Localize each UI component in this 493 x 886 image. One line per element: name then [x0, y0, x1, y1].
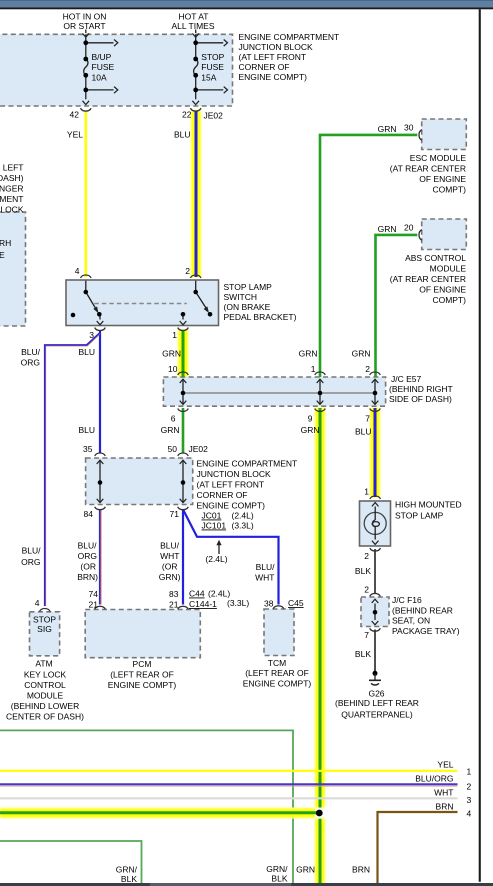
- svg-text:(AT REAR CENTER: (AT REAR CENTER: [390, 164, 466, 174]
- svg-text:(2.4L): (2.4L): [232, 511, 254, 521]
- svg-text:(OR: (OR: [80, 562, 96, 572]
- svg-text:ORG: ORG: [21, 557, 40, 567]
- svg-text:GRN/: GRN/: [116, 864, 138, 874]
- svg-text:OR START: OR START: [63, 21, 105, 31]
- svg-text:(2.4L): (2.4L): [205, 554, 227, 564]
- svg-text:BLU/: BLU/: [22, 546, 42, 556]
- svg-text:YEL: YEL: [67, 130, 83, 140]
- svg-text:DASH): DASH): [0, 173, 24, 183]
- svg-text:(BEHIND RIGHT: (BEHIND RIGHT: [389, 384, 453, 394]
- svg-text:JUNCTION BLOCK: JUNCTION BLOCK: [197, 469, 271, 479]
- svg-text:ENGINE COMPT): ENGINE COMPT): [108, 680, 177, 690]
- svg-text:JE02: JE02: [204, 110, 224, 120]
- svg-text:(AT LEFT FRONT: (AT LEFT FRONT: [197, 480, 265, 490]
- svg-text:BLK: BLK: [355, 566, 371, 576]
- svg-text:C144-1: C144-1: [189, 599, 217, 609]
- svg-text:(OR: (OR: [162, 562, 178, 572]
- svg-text:COMPT): COMPT): [432, 295, 466, 305]
- svg-text:HIGH MOUNTED: HIGH MOUNTED: [395, 500, 462, 510]
- svg-text:COMPT): COMPT): [432, 185, 466, 195]
- svg-text:ABS CONTROL: ABS CONTROL: [405, 253, 466, 263]
- svg-text:(BEHIND LOWER: (BEHIND LOWER: [11, 701, 79, 711]
- svg-text:71: 71: [170, 509, 180, 519]
- svg-text:JE02: JE02: [189, 444, 209, 454]
- svg-text:HOT IN ON: HOT IN ON: [63, 12, 107, 22]
- svg-text:6: 6: [171, 414, 176, 424]
- svg-text:C44: C44: [189, 589, 205, 599]
- svg-text:QUARTERPANEL): QUARTERPANEL): [341, 710, 413, 720]
- svg-text:21: 21: [169, 600, 179, 610]
- svg-text:38: 38: [264, 599, 274, 609]
- svg-text:3: 3: [89, 330, 94, 340]
- svg-text:STOP LAMP: STOP LAMP: [224, 282, 273, 292]
- svg-text:20: 20: [404, 223, 414, 233]
- svg-text:2: 2: [365, 364, 370, 374]
- svg-text:GRN: GRN: [301, 425, 320, 435]
- svg-text:BLU: BLU: [78, 347, 95, 357]
- svg-text:G26: G26: [368, 689, 384, 699]
- svg-text:3: 3: [467, 795, 472, 805]
- svg-text:JUNCTION BLOCK: JUNCTION BLOCK: [239, 42, 313, 52]
- svg-text:MENT: MENT: [0, 194, 24, 204]
- svg-text:ALL TIMES: ALL TIMES: [172, 21, 215, 31]
- svg-text:BLU: BLU: [355, 427, 372, 437]
- svg-text:SWITCH: SWITCH: [224, 292, 258, 302]
- svg-text:2: 2: [364, 585, 369, 595]
- svg-text:PCM: PCM: [133, 659, 152, 669]
- svg-text:STOP LAMP: STOP LAMP: [395, 511, 444, 521]
- svg-text:CONTROL: CONTROL: [24, 680, 66, 690]
- svg-text:GRN: GRN: [378, 124, 397, 134]
- svg-text:CENTER OF DASH): CENTER OF DASH): [6, 712, 84, 722]
- svg-text:TCM: TCM: [268, 658, 286, 668]
- svg-text:ATM: ATM: [35, 658, 52, 668]
- svg-text:BLU/ORG: BLU/ORG: [415, 774, 453, 784]
- svg-text:CORNER OF: CORNER OF: [239, 62, 290, 72]
- svg-text:74: 74: [89, 589, 99, 599]
- svg-text:J/C E57: J/C E57: [391, 374, 422, 384]
- svg-text:(2.4L): (2.4L): [208, 589, 230, 599]
- svg-text:LOCK: LOCK: [0, 204, 23, 214]
- svg-text:42: 42: [70, 110, 80, 120]
- svg-text:BLU/: BLU/: [78, 541, 98, 551]
- svg-text:10: 10: [168, 364, 178, 374]
- svg-text:9: 9: [308, 414, 313, 424]
- svg-text:(3.3L): (3.3L): [232, 521, 254, 531]
- svg-text:GRN/: GRN/: [266, 864, 288, 874]
- svg-text:BLU/: BLU/: [21, 347, 41, 357]
- svg-text:RH: RH: [0, 238, 11, 248]
- svg-text:BRN): BRN): [77, 572, 98, 582]
- svg-text:(3.3L): (3.3L): [227, 598, 249, 608]
- svg-text:OF ENGINE: OF ENGINE: [419, 174, 466, 184]
- svg-text:(BEHIND REAR: (BEHIND REAR: [392, 605, 453, 615]
- svg-text:WHT: WHT: [255, 573, 274, 583]
- svg-text:SIG: SIG: [37, 624, 52, 634]
- svg-text:22: 22: [182, 110, 192, 120]
- svg-text:84: 84: [84, 509, 94, 519]
- svg-text:E: E: [0, 250, 5, 260]
- svg-text:2: 2: [467, 782, 472, 792]
- svg-text:(AT LEFT FRONT: (AT LEFT FRONT: [239, 52, 307, 62]
- svg-text:JC01: JC01: [202, 511, 222, 521]
- svg-text:YEL: YEL: [437, 760, 453, 770]
- svg-text:2: 2: [185, 266, 190, 276]
- svg-text:PACKAGE TRAY): PACKAGE TRAY): [392, 626, 460, 636]
- svg-text:15A: 15A: [201, 72, 216, 82]
- svg-text:GRN: GRN: [162, 349, 181, 359]
- svg-text:SEAT, ON: SEAT, ON: [392, 616, 430, 626]
- svg-text:BLK: BLK: [355, 649, 371, 659]
- svg-text:BLK: BLK: [121, 874, 137, 884]
- svg-text:BRN: BRN: [352, 865, 370, 875]
- svg-text:CORNER OF: CORNER OF: [197, 490, 248, 500]
- svg-text:1: 1: [311, 364, 316, 374]
- svg-text:ORG: ORG: [21, 358, 40, 368]
- svg-text:ESC MODULE: ESC MODULE: [410, 153, 467, 163]
- svg-text:50: 50: [168, 444, 178, 454]
- svg-text:GRN: GRN: [299, 349, 318, 359]
- svg-text:BLU: BLU: [78, 425, 95, 435]
- svg-text:FUSE: FUSE: [92, 62, 115, 72]
- svg-text:SIDE OF DASH): SIDE OF DASH): [389, 394, 452, 404]
- svg-text:MODULE: MODULE: [430, 264, 467, 274]
- svg-text:BLK: BLK: [271, 874, 287, 884]
- svg-text:GRN: GRN: [352, 349, 371, 359]
- svg-text:30: 30: [404, 123, 414, 133]
- svg-text:GRN: GRN: [378, 224, 397, 234]
- svg-text:STOP: STOP: [33, 615, 56, 625]
- svg-text:BLU/: BLU/: [256, 562, 276, 572]
- svg-text:PEDAL BRACKET): PEDAL BRACKET): [224, 312, 297, 322]
- svg-text:1: 1: [364, 487, 369, 497]
- svg-text:GRN: GRN: [161, 425, 180, 435]
- svg-text:C45: C45: [288, 598, 304, 608]
- svg-text:(BEHIND LEFT REAR: (BEHIND LEFT REAR: [335, 698, 419, 708]
- svg-text:4: 4: [35, 598, 40, 608]
- svg-text:BLU: BLU: [174, 130, 191, 140]
- svg-text:ENGINE COMPT): ENGINE COMPT): [239, 72, 308, 82]
- svg-text:ENGINE COMPT): ENGINE COMPT): [243, 679, 312, 689]
- svg-text:STOP: STOP: [201, 52, 224, 62]
- svg-text:2: 2: [364, 551, 369, 561]
- svg-text:GRN: GRN: [296, 865, 315, 875]
- svg-text:4: 4: [75, 266, 80, 276]
- svg-text:KEY LOCK: KEY LOCK: [24, 670, 67, 680]
- svg-text:(LEFT REAR OF: (LEFT REAR OF: [110, 670, 174, 680]
- svg-text:(LEFT REAR OF: (LEFT REAR OF: [245, 668, 309, 678]
- svg-text:WHT: WHT: [160, 551, 179, 561]
- svg-text:35: 35: [83, 444, 93, 454]
- svg-text:HOT AT: HOT AT: [179, 12, 209, 22]
- svg-text:LEFT: LEFT: [3, 163, 24, 173]
- svg-text:GRN): GRN): [159, 572, 181, 582]
- svg-text:83: 83: [169, 589, 179, 599]
- svg-text:B/UP: B/UP: [92, 52, 112, 62]
- svg-text:WHT: WHT: [434, 788, 453, 798]
- svg-text:JC101: JC101: [202, 521, 227, 531]
- svg-text:21: 21: [89, 600, 99, 610]
- svg-text:MODULE: MODULE: [27, 691, 64, 701]
- svg-text:ENGINE COMPT): ENGINE COMPT): [197, 501, 266, 511]
- svg-text:BLU/: BLU/: [160, 541, 180, 551]
- svg-text:(AT REAR CENTER: (AT REAR CENTER: [390, 274, 466, 284]
- svg-text:(ON BRAKE: (ON BRAKE: [224, 302, 271, 312]
- svg-text:ENGINE COMPARTMENT: ENGINE COMPARTMENT: [239, 32, 340, 42]
- svg-text:ORG: ORG: [78, 551, 97, 561]
- svg-text:OF ENGINE: OF ENGINE: [419, 285, 466, 295]
- svg-text:FUSE: FUSE: [201, 62, 224, 72]
- svg-text:J/C F16: J/C F16: [392, 595, 422, 605]
- svg-text:BRN: BRN: [436, 802, 454, 812]
- svg-text:7: 7: [364, 630, 369, 640]
- svg-text:1: 1: [467, 767, 472, 777]
- svg-text:10A: 10A: [92, 72, 107, 82]
- svg-text:1: 1: [172, 330, 177, 340]
- svg-text:7: 7: [365, 414, 370, 424]
- svg-text:ENGINE COMPARTMENT: ENGINE COMPARTMENT: [197, 459, 298, 469]
- svg-text:NGER: NGER: [0, 184, 24, 194]
- svg-text:4: 4: [467, 809, 472, 819]
